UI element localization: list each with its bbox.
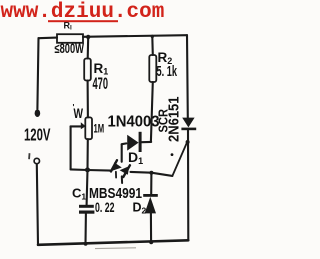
wire bottom rail — [38, 240, 188, 245]
terminal 120V top dot — [35, 109, 41, 117]
svg-text:W: W — [74, 105, 84, 121]
terminal 120V bottom circle — [34, 158, 39, 163]
wire top rail right segment — [83, 35, 187, 37]
diode D2 cathode bar — [143, 194, 158, 197]
wire C1 to bottom rail — [84, 214, 87, 245]
pot wiper arrowhead — [81, 122, 86, 129]
svg-text:2N6151: 2N6151 — [166, 97, 183, 143]
node junction top A — [86, 35, 90, 39]
svg-text:1N4003: 1N4003 — [108, 114, 160, 131]
wire SCR cathode down — [187, 130, 189, 240]
wire pot bottom to C1 — [87, 139, 88, 205]
wire R2 bottom to D1 node — [151, 82, 153, 142]
diode D2 triangle — [145, 197, 156, 214]
wire D1 left lead — [122, 142, 127, 145]
capacitor C1 bottom plate — [79, 211, 94, 214]
wire trigger rail left — [71, 169, 111, 170]
wire right edge anode — [186, 35, 189, 117]
stray mark left margin — [28, 153, 30, 159]
node junction R2 top — [151, 35, 154, 38]
wire left edge upper — [37, 38, 38, 109]
svg-text:470: 470 — [93, 75, 109, 93]
svg-text:≤800W: ≤800W — [55, 41, 85, 56]
node junction wiper/main — [85, 167, 90, 172]
resistor R1 body — [84, 59, 91, 81]
wire ghost scan line below rail — [95, 247, 136, 250]
wire R1 to pot — [87, 81, 89, 118]
resistor R2 body — [149, 55, 156, 82]
svg-text:120V: 120V — [24, 125, 51, 145]
watermark underline — [48, 20, 118, 22]
resistor RL load box — [57, 34, 83, 43]
diac MBS4991 symbol — [111, 160, 130, 183]
SCR cathode bar — [181, 128, 196, 131]
wire D1 right lead — [142, 141, 151, 143]
svg-text:0. 22: 0. 22 — [95, 200, 115, 215]
wire SCR gate diagonal — [172, 142, 187, 176]
wire D1 drop to diac — [121, 145, 123, 162]
wire wiper drop — [70, 126, 72, 169]
node junction C1 bottom rail — [84, 242, 88, 246]
svg-text:': ' — [73, 103, 75, 112]
svg-text:5. 1k: 5. 1k — [157, 63, 178, 80]
wire R2 branch from top — [151, 37, 154, 56]
wire D2 lower lead — [150, 213, 152, 242]
node junction D2 top — [149, 171, 153, 175]
wire left edge lower — [37, 164, 38, 245]
wire trigger rail right — [131, 172, 173, 176]
diode D1 triangle — [127, 135, 138, 151]
svg-text:1M: 1M — [94, 123, 105, 135]
node junction D2 bottom rail — [149, 240, 153, 244]
diode D1 cathode bar — [139, 132, 142, 152]
potentiometer W body — [85, 117, 92, 139]
wire pot wiper arm — [71, 125, 82, 127]
node junction gate on cathode line — [186, 140, 190, 144]
wire main branch below junction — [87, 37, 90, 59]
wire top rail left segment — [39, 37, 58, 40]
capacitor C1 top plate — [79, 205, 94, 208]
label dot near 2N6151 — [171, 153, 174, 156]
SCR 2N6151 triangle — [182, 118, 194, 128]
wire D2 upper lead — [150, 173, 152, 195]
